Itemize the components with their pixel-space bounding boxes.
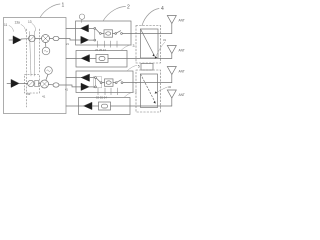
- wire F2 to antenna 2: [108, 57, 172, 59]
- leader to label 3: [121, 45, 132, 51]
- LNA L3: [81, 74, 89, 81]
- leader line long 13: [33, 31, 35, 76]
- LNA L4: [84, 102, 92, 109]
- antenna ANT3: [167, 67, 176, 75]
- svg-text:13a: 13a: [15, 21, 21, 25]
- svg-text:31: 31: [163, 38, 167, 42]
- antenna ANT4: [167, 90, 176, 98]
- FEM box 4: [76, 71, 133, 93]
- control stub b: [104, 41, 106, 47]
- mixer M2: [41, 80, 49, 88]
- leader to label 4: [142, 9, 159, 26]
- LNA L1: [81, 25, 89, 32]
- RFIC block U11 (large left box): [4, 18, 67, 114]
- switch S4: [115, 82, 117, 84]
- leader arrow 32: [156, 87, 168, 93]
- control stub h: [117, 88, 119, 95]
- coupler C2 (oval): [53, 83, 59, 87]
- svg-text:2: 2: [127, 5, 130, 11]
- attenuator T2: [35, 80, 39, 86]
- control stub c: [110, 41, 112, 47]
- antenna module 1 (dashed): [136, 26, 161, 64]
- coupler C1 (oval): [53, 36, 59, 40]
- mixer M1: [42, 35, 50, 43]
- switch S1: [94, 28, 96, 30]
- leader diagonal 1: [141, 29, 155, 55]
- svg-text:11: 11: [4, 23, 8, 27]
- wire FEM2 to ANT1: [131, 33, 172, 35]
- control stub a: [97, 41, 99, 47]
- leader for 13: [32, 24, 36, 32]
- svg-text:ANT: ANT: [179, 93, 185, 97]
- svg-text:ANT: ANT: [179, 19, 185, 23]
- svg-text:5: 5: [138, 64, 140, 68]
- PA P1: [81, 36, 89, 43]
- wire S3 to filter: [102, 82, 105, 84]
- switch S2: [115, 33, 117, 35]
- wire TX1 out to FEM2: [59, 39, 81, 41]
- wire A2 to phase shifter: [19, 83, 28, 85]
- wire switch to filter: [101, 33, 104, 35]
- LNA L2: [81, 55, 89, 62]
- svg-text:4: 4: [161, 6, 164, 12]
- wire LNA4 to filter: [92, 105, 99, 107]
- svg-text:13: 13: [28, 20, 32, 24]
- control stub d: [116, 41, 118, 47]
- wire A1 to phase shifter: [21, 38, 29, 40]
- FEM box 5 (bottom): [79, 98, 131, 115]
- antenna ANT2: [167, 46, 176, 54]
- wire LNA2 to filter: [90, 57, 97, 59]
- FEM box 3: [76, 51, 127, 68]
- leader arrow 31: [156, 42, 166, 58]
- filter F2: [96, 54, 108, 62]
- leader for 11: [9, 26, 14, 32]
- leader to label 1: [40, 4, 60, 18]
- phase shifter P1: [29, 35, 36, 42]
- wire RX2 from FEM4: [66, 77, 81, 79]
- svg-text:ANT: ANT: [179, 70, 185, 74]
- wire RFIC to FEM3: [66, 57, 81, 59]
- wire filter to switch S2: [113, 33, 115, 35]
- wire A2 input: [7, 83, 11, 85]
- control stub e: [97, 88, 99, 95]
- wire M1 to coupler: [50, 38, 54, 40]
- oscillator O2: [45, 67, 53, 75]
- antenna ANT1: [167, 16, 176, 24]
- wire M2 to coupler: [49, 84, 54, 86]
- FEM box 2 (top): [76, 21, 132, 45]
- inner substrate 2: [141, 74, 158, 108]
- wire PA3 to switch: [89, 86, 95, 88]
- control stub g: [110, 88, 112, 95]
- PA P3: [81, 83, 89, 90]
- amplifier A1 (top chain): [13, 36, 21, 44]
- wire S4 to antenna 3: [123, 82, 172, 84]
- svg-text:3: 3: [133, 44, 135, 48]
- oscillator O1: [42, 47, 50, 55]
- wire F3 to switch S4: [113, 82, 115, 84]
- wire RX1 from FEM2: [66, 27, 81, 29]
- control stub f: [104, 88, 106, 95]
- wire F4 to antenna 4: [111, 105, 172, 107]
- wire LNA to switch: [89, 27, 94, 29]
- filter F3: [105, 79, 114, 86]
- leader to label 2: [103, 7, 126, 22]
- dashed section line left: [26, 29, 28, 107]
- wire O2 to M2: [46, 74, 48, 80]
- wire P2 to mixer M2: [38, 83, 40, 85]
- svg-text:41: 41: [42, 95, 46, 99]
- amplifier A2 (bottom chain): [11, 80, 19, 88]
- antenna module 2 (dashed): [136, 70, 161, 112]
- wire S2 to box edge: [122, 33, 131, 35]
- wire TX2 out to FEM4: [59, 85, 81, 87]
- dashed section line right: [39, 29, 41, 72]
- leader to label 5: [127, 66, 137, 72]
- svg-text:43: 43: [27, 92, 31, 96]
- wire LNA3 to switch: [90, 77, 95, 79]
- phase shifter P2: [28, 80, 34, 86]
- svg-text:ANT: ANT: [179, 49, 185, 53]
- wire RFIC to FEM5: [66, 105, 84, 107]
- circled mark 21a: [79, 14, 84, 19]
- inner substrate 1: [141, 29, 159, 58]
- leader to label 7: [124, 92, 134, 98]
- wire PA to switch: [89, 39, 94, 41]
- svg-text:23 25 24: 23 25 24: [95, 48, 106, 52]
- switch S3 housing: [94, 77, 102, 88]
- svg-text:21: 21: [66, 42, 69, 46]
- dashed block boundary: [25, 75, 40, 94]
- wire A1 input: [9, 39, 13, 41]
- switch S3: [95, 77, 97, 79]
- filter F4: [99, 102, 111, 110]
- wire O1 to M1: [45, 43, 47, 48]
- leader diagonal 2: [141, 74, 156, 102]
- leader for 13a: [21, 25, 26, 32]
- svg-text:32: 32: [168, 85, 172, 89]
- filter F1: [104, 30, 113, 37]
- svg-text:41: 41: [65, 88, 68, 92]
- tab on module 2: [141, 64, 153, 71]
- svg-text:1: 1: [62, 3, 65, 9]
- wire P1 to mixer M1: [35, 38, 41, 40]
- leader line long 13a: [30, 32, 32, 77]
